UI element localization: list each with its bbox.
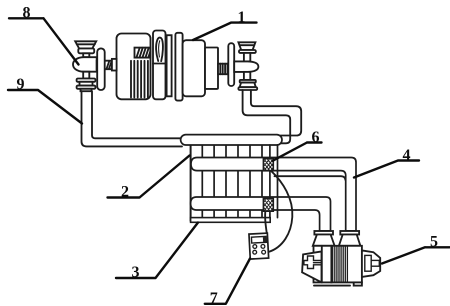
flange plate right of motor: [228, 43, 234, 86]
radiator vertical tubes: [202, 145, 262, 221]
pump right head: [362, 250, 380, 277]
shaft from valve V8 to motor: [97, 61, 117, 69]
pump slab division: [321, 246, 323, 283]
pump neck 2 funnel: [339, 235, 361, 246]
motor output shaft: [218, 64, 228, 74]
motor hatched box: [135, 48, 151, 58]
radiator crossbar 2 continuing as pipe to pump neck 1: [191, 197, 331, 231]
valve V8 stem: [83, 53, 89, 57]
svg-text:2: 2: [121, 184, 129, 201]
pump main body: [331, 246, 362, 283]
svg-text:8: 8: [23, 5, 31, 22]
pump neck 1 collar: [314, 231, 333, 235]
sensor box 6a: [263, 158, 273, 171]
radiator top header tank: [181, 135, 282, 145]
motor cooling fins: [131, 61, 148, 98]
svg-text:1: 1: [238, 9, 246, 26]
label 7 leader: [205, 259, 250, 304]
svg-text:6: 6: [312, 129, 320, 146]
flange plate left of motor: [97, 48, 105, 90]
label 3 leader: [116, 223, 198, 279]
pump bottom right foot: [354, 282, 362, 285]
valve V8 handwheel: [75, 41, 96, 53]
motor plate A: [167, 35, 172, 96]
valve V8 lower stem: [83, 72, 89, 79]
label 8 leader: [9, 18, 79, 64]
label 4 leader: [354, 161, 419, 178]
motor tower section: [153, 31, 166, 100]
extra pipe line below crossbar 1: [275, 176, 346, 180]
radiator right columns: [270, 145, 278, 218]
label 1 leader: [193, 23, 257, 40]
wire from sensor 6b to controller: [265, 211, 267, 233]
pump neck 2 collar: [340, 231, 359, 235]
motor step block: [205, 48, 218, 89]
pump left bracket: [302, 251, 321, 282]
valve V1 lower stem: [244, 72, 250, 80]
sensor box 6b: [263, 198, 273, 211]
svg-text:9: 9: [17, 76, 25, 93]
svg-text:4: 4: [403, 147, 411, 164]
pump ribs: [333, 247, 348, 282]
svg-text:7: 7: [210, 290, 218, 306]
radiator crossbar 1 continuing as pipe to pump neck 2: [191, 158, 356, 231]
controller box 7: [249, 233, 269, 259]
valve V1 body: [234, 61, 258, 72]
label 2 leader: [108, 156, 190, 198]
motor right body: [183, 40, 205, 96]
motor shaft collar on left edge: [112, 59, 117, 71]
valve V1 handwheel: [238, 42, 255, 53]
valve V8 body: [73, 57, 97, 71]
motor end flange plate B: [175, 33, 182, 101]
pipe from valve V8 down and right to radiator header: [82, 91, 183, 146]
radiator left edge: [190, 145, 192, 221]
svg-text:5: 5: [430, 234, 438, 251]
valve V1 stem: [244, 53, 250, 62]
pump base line: [314, 285, 350, 287]
motor main body (stator): [117, 34, 151, 100]
pipe from valve V1 down, right, down into radiator header: [243, 90, 302, 143]
valve V1 flanges: [238, 80, 257, 90]
label 9 leader: [8, 90, 82, 124]
wire from sensor 6a to controller: [268, 171, 292, 252]
label 5 leader: [382, 247, 450, 263]
tower teardrop detail: [156, 38, 163, 62]
label 6 leader: [273, 143, 322, 161]
valve V8 flanges: [77, 79, 96, 92]
pump neck 1 funnel: [313, 235, 335, 246]
radiator bottom bar: [191, 218, 271, 223]
pump left housing slab: [314, 246, 332, 283]
svg-text:3: 3: [132, 264, 140, 281]
